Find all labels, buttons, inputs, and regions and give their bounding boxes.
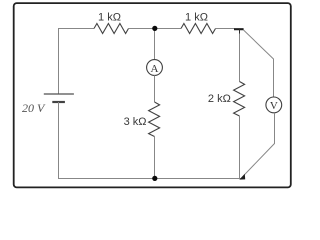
wire: voltmeter top lead (diagonal + vertical): [244, 30, 274, 97]
wire: top middle from R1 to R2 through node: [129, 28, 182, 30]
wire: ammeter to 3 kΩ resistor: [154, 75, 156, 102]
svg-text:2 kΩ: 2 kΩ: [208, 93, 231, 105]
battery 20 V source plates: [44, 94, 74, 102]
wire: 3 kΩ to bottom node: [154, 137, 156, 179]
svg-text:V: V: [270, 100, 278, 112]
resistor 1 kΩ (right, horizontal): [181, 24, 216, 34]
wire: voltmeter bottom lead (vertical + diagonal): [242, 113, 275, 178]
wire: top-left horizontal from battery branch to R1: [58, 28, 94, 30]
wire: bottom horizontal: [58, 178, 241, 180]
resistor 1 kΩ (left, horizontal): [94, 24, 129, 34]
resistor 3 kΩ (vertical): [149, 102, 160, 137]
wire: left vertical down to battery: [58, 28, 60, 94]
svg-text:1 kΩ: 1 kΩ: [185, 11, 208, 23]
wire: middle branch from top node to ammeter: [154, 28, 156, 60]
svg-text:3 kΩ: 3 kΩ: [124, 116, 147, 128]
wire: 2 kΩ to bottom wire: [239, 116, 241, 179]
node A (top junction dot): [152, 26, 157, 31]
probe arrowhead (bottom junction): [239, 174, 245, 180]
wire: right branch from top corner down to 2 kΩ: [239, 29, 241, 82]
node B (bottom junction dot): [152, 176, 157, 181]
voltmeter V (meter circle): [266, 97, 282, 113]
resistor 2 kΩ (vertical): [234, 82, 245, 117]
wire: top-right horizontal from R2 to corner: [216, 28, 235, 30]
border frame (decorative): [14, 3, 291, 187]
svg-text:A: A: [151, 63, 159, 75]
ammeter A (meter circle): [147, 60, 163, 76]
wire: left vertical from battery to bottom: [58, 102, 60, 179]
svg-text:1 kΩ: 1 kΩ: [98, 11, 121, 23]
svg-text:20 V: 20 V: [22, 101, 46, 115]
probe arrow tick (top junction to voltmeter lead): [234, 29, 244, 34]
